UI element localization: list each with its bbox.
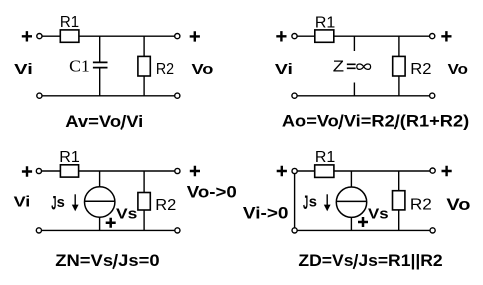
wire bottom rail bbox=[297, 229, 429, 231]
terminal input bottom bbox=[37, 93, 42, 98]
svg-text:=: = bbox=[346, 59, 356, 76]
wire input to R1 bbox=[297, 170, 314, 172]
wire open branch upper stub bbox=[353, 36, 355, 51]
terminal input top bbox=[292, 34, 297, 39]
svg-text:R2: R2 bbox=[156, 61, 174, 78]
svg-text:R1: R1 bbox=[315, 149, 336, 166]
caption slash descender bbox=[121, 126, 122, 129]
wire bottom rail bbox=[42, 95, 174, 97]
terminal input bottom bbox=[292, 228, 297, 233]
wire top rail R1 to output bbox=[79, 35, 175, 37]
wire input to R1 bbox=[297, 35, 315, 37]
svg-text:J: J bbox=[303, 193, 308, 214]
svg-text:Vo->0: Vo->0 bbox=[187, 183, 237, 202]
wire R2 bottom to rail bbox=[398, 210, 400, 231]
resistor R1 bbox=[315, 165, 334, 178]
svg-text:Vi->0: Vi->0 bbox=[243, 204, 289, 223]
terminal input top bbox=[292, 168, 297, 173]
wire junction to R2 top bbox=[143, 36, 145, 56]
wire top rail to output bbox=[334, 35, 430, 37]
label Js bbox=[51, 193, 64, 214]
resistor R2 bbox=[393, 56, 405, 76]
svg-text:R1: R1 bbox=[315, 14, 336, 31]
wire top rail to output bbox=[334, 170, 430, 172]
source Vs/Js (test source) bbox=[85, 187, 115, 217]
label + (output positive, bottom-right circuit) bbox=[442, 166, 452, 176]
terminal output bottom bbox=[175, 93, 180, 98]
svg-text:Av=Vo/Vi: Av=Vo/Vi bbox=[65, 113, 143, 131]
svg-text:R1: R1 bbox=[60, 14, 79, 31]
wire bottom rail bbox=[297, 95, 429, 97]
caption slash descender bbox=[113, 266, 114, 269]
wire R2 bottom to rail bbox=[398, 76, 400, 96]
svg-text:ZN=Vs/Js=0: ZN=Vs/Js=0 bbox=[55, 252, 159, 270]
terminal output top bbox=[175, 168, 180, 173]
wire source bottom to rail bbox=[350, 217, 352, 230]
label + (source polarity) bbox=[358, 217, 368, 227]
terminal output top bbox=[175, 34, 180, 39]
resistor R2 bbox=[138, 56, 150, 76]
terminal output bottom bbox=[430, 93, 435, 98]
label + (output positive, bottom-left circuit) bbox=[190, 166, 200, 176]
svg-text:C1: C1 bbox=[69, 56, 90, 75]
svg-text:s: s bbox=[309, 194, 317, 211]
svg-text:Ao=Vo/Vi=R2/(R1+R2): Ao=Vo/Vi=R2/(R1+R2) bbox=[282, 112, 469, 130]
svg-text:Vo: Vo bbox=[448, 61, 468, 78]
wire input to R1 bbox=[42, 170, 61, 172]
terminal input top bbox=[37, 34, 42, 39]
wire junction to R2 top bbox=[398, 36, 400, 56]
svg-text:Vs: Vs bbox=[368, 205, 389, 222]
svg-text:R2: R2 bbox=[410, 61, 431, 78]
svg-text:R1: R1 bbox=[59, 149, 80, 166]
caption slash descender bbox=[354, 266, 355, 269]
svg-text:Vo: Vo bbox=[446, 196, 470, 214]
resistor R1 bbox=[60, 30, 79, 42]
wire junction to R2 top bbox=[143, 171, 145, 193]
label + (input positive, bottom-right circuit) bbox=[277, 166, 287, 176]
svg-text:s: s bbox=[57, 194, 65, 211]
arrow Js current direction bbox=[324, 194, 331, 211]
label Js bbox=[303, 193, 317, 214]
svg-text:Z: Z bbox=[333, 59, 345, 76]
arrow Js current direction bbox=[72, 194, 79, 211]
label + (output positive, top-right circuit) bbox=[441, 31, 451, 41]
label + (input positive, top-right circuit) bbox=[276, 31, 286, 41]
terminal output top bbox=[430, 34, 435, 39]
resistor R2 bbox=[393, 191, 405, 210]
terminal input bottom bbox=[292, 93, 297, 98]
wire C1 bottom to rail bbox=[99, 68, 101, 95]
svg-text:ZD=Vs/Js=R1||R2: ZD=Vs/Js=R1||R2 bbox=[298, 252, 442, 270]
resistor R1 bbox=[60, 165, 78, 177]
terminal output bottom bbox=[430, 228, 435, 233]
wire input to R1 bbox=[42, 35, 60, 37]
resistor R1 bbox=[315, 30, 334, 42]
wire junction to R2 top bbox=[398, 171, 400, 191]
svg-text:Vo: Vo bbox=[192, 61, 214, 78]
svg-text:Vs: Vs bbox=[116, 205, 137, 222]
svg-text:R2: R2 bbox=[155, 197, 176, 214]
wire R2 bottom to rail bbox=[143, 210, 145, 230]
svg-text:R2: R2 bbox=[410, 197, 432, 214]
source Vs/Js (test source) bbox=[336, 187, 366, 217]
wire junction to C1 top bbox=[99, 36, 101, 62]
label + (input positive, bottom-left circuit) bbox=[22, 166, 32, 176]
terminal input bottom bbox=[36, 228, 41, 233]
wire open branch lower stub bbox=[353, 83, 355, 96]
wire junction to source top bbox=[350, 171, 352, 187]
wire input short (Vi->0) bbox=[294, 174, 296, 228]
label + (input positive, top-left circuit) bbox=[22, 31, 32, 41]
terminal output bottom bbox=[175, 228, 180, 233]
svg-text:Vi: Vi bbox=[14, 193, 31, 210]
label + (output positive, top-left circuit) bbox=[190, 31, 200, 41]
svg-text:Vi: Vi bbox=[275, 61, 293, 78]
wire source bottom to rail bbox=[99, 217, 101, 230]
wire junction to source top bbox=[99, 171, 101, 187]
svg-text:Vi: Vi bbox=[14, 61, 33, 78]
resistor R2 bbox=[138, 193, 150, 211]
label + (source polarity) bbox=[106, 218, 116, 228]
wire bottom rail bbox=[42, 229, 175, 231]
wire top rail to output bbox=[79, 170, 175, 172]
wire R2 bottom to rail bbox=[143, 76, 145, 96]
capacitor C1 bbox=[93, 62, 108, 67]
terminal output top bbox=[430, 168, 435, 173]
caption slash descenders bbox=[339, 126, 396, 129]
label Z=infinity (open-circuit impedance) bbox=[333, 59, 371, 76]
terminal input top bbox=[36, 168, 41, 173]
